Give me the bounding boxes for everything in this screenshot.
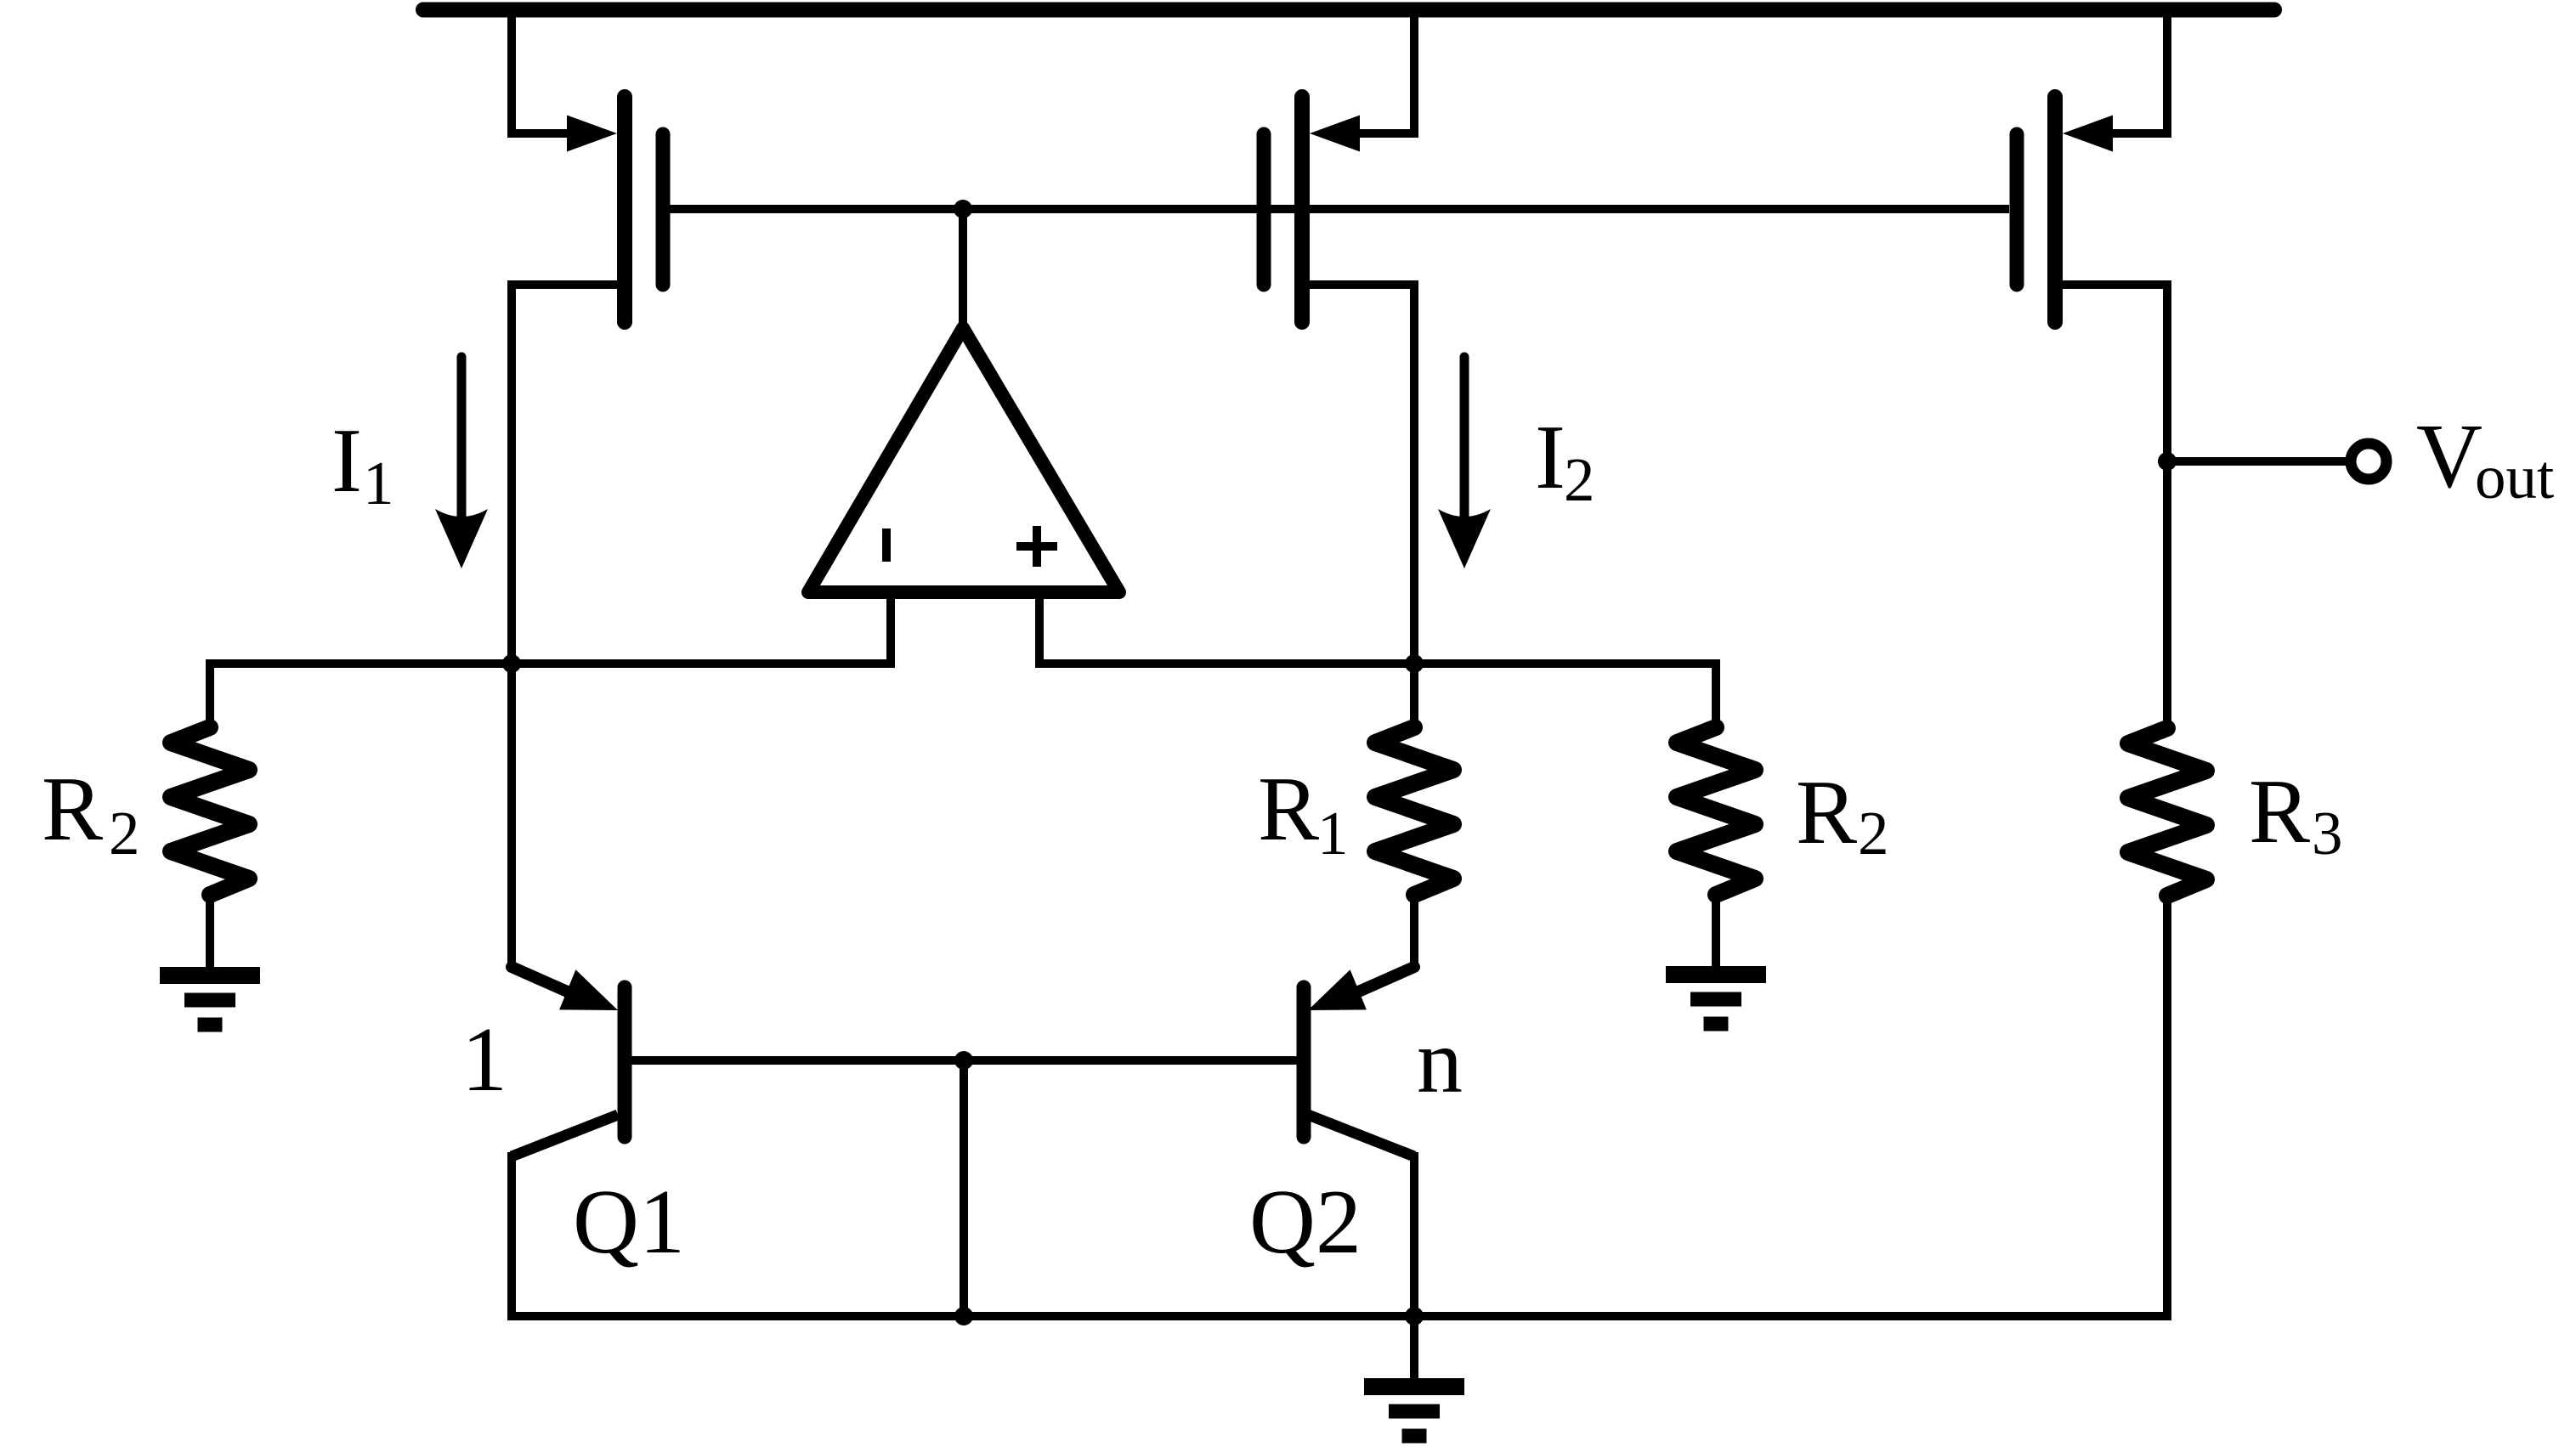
svg-text:1: 1 <box>1317 799 1349 868</box>
resistor R3 <box>2128 728 2206 896</box>
resistor R2 (left) <box>171 727 249 895</box>
svg-text:n: n <box>1417 1011 1463 1112</box>
wire to Vout terminal <box>2167 457 2346 466</box>
node A junction <box>502 654 521 673</box>
svg-text:I: I <box>1535 407 1565 508</box>
current arrow I2 <box>1438 357 1491 568</box>
junction base wire / tie-down <box>954 1051 973 1070</box>
transistor M1 (PMOS, left) <box>512 9 663 969</box>
wire Vout node to R3 <box>2163 461 2171 732</box>
svg-text:2: 2 <box>1564 445 1595 514</box>
bottom wire: Q1 collector, bases, Q2 collector, ground, to R3 <box>512 896 2167 1316</box>
wire: inverting input stub <box>886 599 895 668</box>
gate bus wire M1-M2-M3 <box>670 205 2009 213</box>
svg-text:R: R <box>2249 761 2310 862</box>
wire node A: R2(left) to minus input <box>210 664 891 732</box>
VDD rail <box>423 3 2274 18</box>
svg-text:R: R <box>1258 759 1319 860</box>
wire: non-inverting input stub <box>1035 599 1044 668</box>
ground (center) <box>1364 1387 1464 1436</box>
resistor R1 <box>1375 727 1453 895</box>
svg-text:I: I <box>331 410 362 512</box>
node: opamp output to gates <box>954 200 972 218</box>
svg-text:R: R <box>1796 762 1857 863</box>
svg-text:1: 1 <box>363 449 394 517</box>
junction bottom wire / Q2 collector / ground <box>1405 1307 1424 1325</box>
wire R1 to Q2 emitter <box>1410 895 1418 965</box>
svg-text:Q1: Q1 <box>573 1172 685 1273</box>
resistor R2 (right) <box>1677 727 1755 895</box>
node B junction <box>1405 654 1424 673</box>
current arrow I1 <box>435 357 488 568</box>
svg-text:V: V <box>2416 406 2483 507</box>
wire Q1 base to Q2 base <box>631 1056 1297 1065</box>
ground (right) <box>1666 975 1766 1024</box>
svg-text:R: R <box>42 759 103 860</box>
wire base tie to bottom rail <box>960 1060 968 1316</box>
transistor M2 (PMOS, middle) <box>1264 9 1414 731</box>
svg-text:2: 2 <box>1858 799 1889 868</box>
svg-text:2: 2 <box>109 799 140 868</box>
Vout terminal circle <box>2351 444 2386 479</box>
wire node B: plus input to R2(right) <box>1039 664 1716 732</box>
wire R2(left) to ground <box>206 895 214 975</box>
transistor M3 (PMOS, right) <box>2017 9 2167 461</box>
wire to center ground <box>1410 1316 1418 1387</box>
svg-text:1: 1 <box>461 1009 507 1111</box>
svg-text:Q2: Q2 <box>1249 1172 1362 1273</box>
junction bottom wire / base tie <box>954 1307 973 1325</box>
ground (left) <box>160 975 260 1025</box>
node Vout junction <box>2158 452 2177 471</box>
svg-text:3: 3 <box>2312 799 2343 868</box>
op-amp U1 <box>808 209 1119 592</box>
wire R2(right) to ground <box>1712 895 1720 975</box>
transistor Q2 (PNP) <box>1304 967 1414 1312</box>
transistor Q1 (PNP) <box>512 967 625 1156</box>
svg-text:out: out <box>2475 443 2554 512</box>
